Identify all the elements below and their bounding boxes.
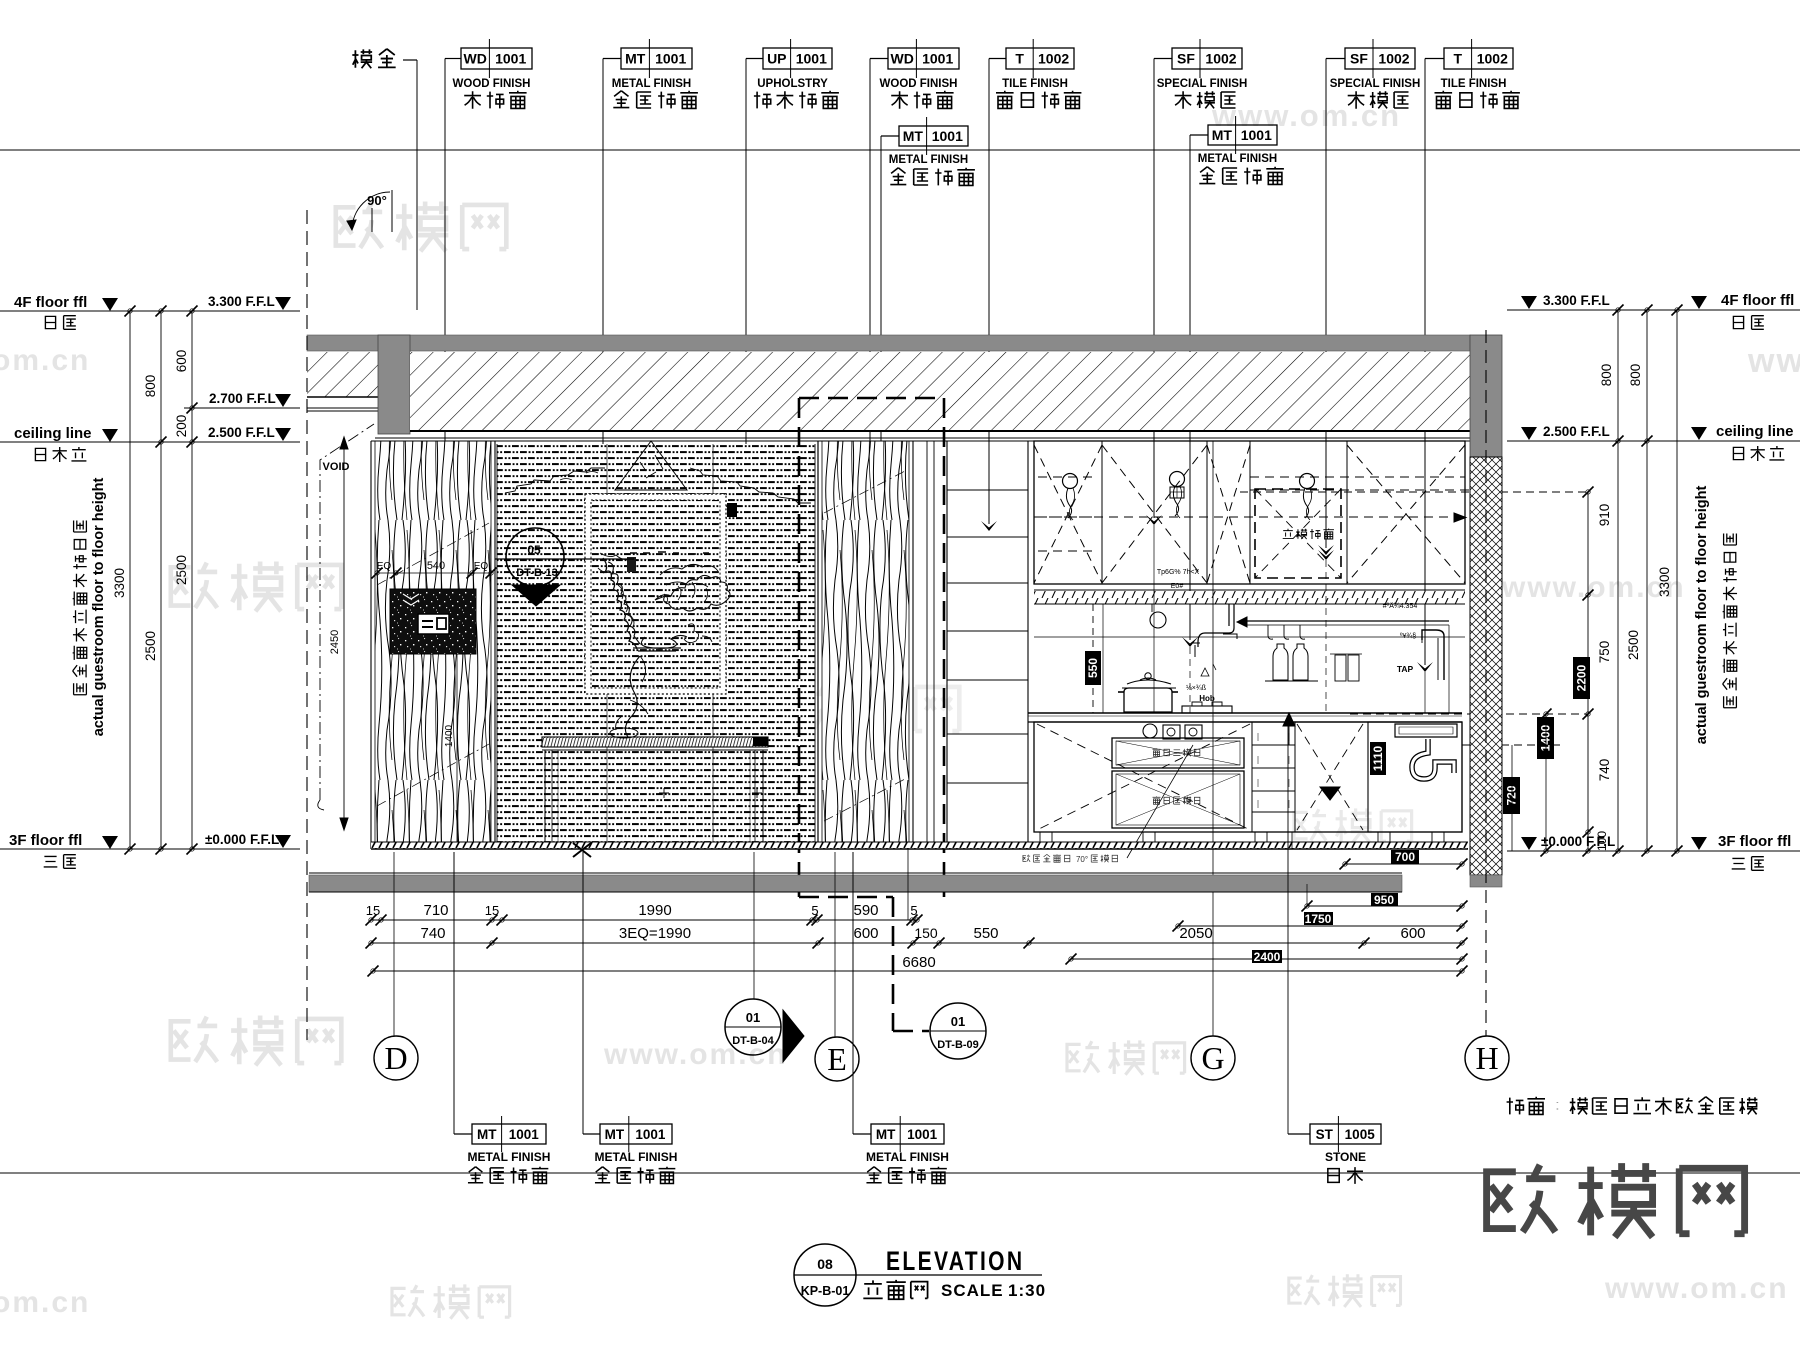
svg-text:1001: 1001 <box>907 1127 938 1142</box>
svg-text:3.300 F.F.L: 3.300 F.F.L <box>1543 293 1610 308</box>
svg-text:5: 5 <box>811 903 818 918</box>
svg-text:WD: WD <box>891 51 914 67</box>
svg-text:740: 740 <box>420 925 445 942</box>
svg-text:600: 600 <box>853 925 878 942</box>
svg-text:#ºÄ¾4.354: #ºÄ¾4.354 <box>1383 602 1418 610</box>
detail marker DT-B-09 <box>930 1003 986 1059</box>
note: cabinets to be deepened by specialist company <box>1507 1097 1758 1115</box>
top finish tags row <box>461 48 532 69</box>
svg-text:www.om.cn: www.om.cn <box>1604 1272 1789 1305</box>
title block: 08/KP-B-01 ELEVATION SCALE 1:30 <box>794 1244 856 1306</box>
svg-text:6680: 6680 <box>902 954 935 971</box>
svg-text:WD: WD <box>464 51 487 67</box>
svg-text:3300: 3300 <box>1657 567 1672 597</box>
svg-text:100: 100 <box>1595 831 1609 851</box>
svg-text:VOID: VOID <box>323 461 350 473</box>
svg-text:2050: 2050 <box>1179 925 1212 942</box>
svg-text:G: G <box>1201 1040 1224 1076</box>
svg-text:¼×¾ß: ¼×¾ß <box>1186 685 1206 692</box>
svg-text:MT: MT <box>903 128 924 144</box>
kitchen base cabinets <box>1034 722 1462 832</box>
cross-hatched column <box>1470 457 1502 875</box>
svg-text:540: 540 <box>427 560 445 572</box>
svg-text:MT: MT <box>1212 127 1233 143</box>
svg-text:3F floor ffl: 3F floor ffl <box>1718 833 1791 850</box>
svg-text:TAP: TAP <box>1397 664 1414 674</box>
floor hatch strip and base slab band <box>371 842 1468 849</box>
console table <box>542 737 768 747</box>
border line top <box>0 149 1800 151</box>
svg-text:3.300 F.F.L: 3.300 F.F.L <box>208 294 275 309</box>
svg-text:800: 800 <box>1599 364 1614 387</box>
svg-text:1001: 1001 <box>635 1127 666 1142</box>
svg-text:ceiling line: ceiling line <box>1716 423 1794 440</box>
svg-text:4F floor ffl: 4F floor ffl <box>14 294 87 311</box>
hob <box>1182 706 1232 713</box>
svg-text:08: 08 <box>817 1256 833 1272</box>
ceiling slab gray band <box>307 335 1470 351</box>
svg-text:SCALE: SCALE <box>941 1281 1004 1300</box>
cooking pot on hob <box>1124 688 1172 712</box>
svg-text:3300: 3300 <box>112 568 127 598</box>
svg-text:1001: 1001 <box>922 51 953 67</box>
svg-text:METAL FINISH: METAL FINISH <box>468 1150 551 1164</box>
svg-text:T: T <box>1015 51 1024 67</box>
kitchen wall cabinets <box>1034 441 1465 584</box>
svg-text:om.cn: om.cn <box>0 344 90 377</box>
svg-text:ST: ST <box>1316 1127 1334 1142</box>
pull-down faucet <box>1198 604 1234 647</box>
artwork frame with branch painting <box>585 494 726 694</box>
svg-text:METAL FINISH: METAL FINISH <box>1198 153 1277 165</box>
svg-text:TILE FINISH: TILE FINISH <box>1441 78 1507 90</box>
svg-text:1:30: 1:30 <box>1008 1281 1046 1300</box>
svg-text:710: 710 <box>423 902 448 919</box>
gray bulkhead block left <box>378 335 410 434</box>
svg-text:º¥¾§: º¥¾§ <box>1400 633 1416 640</box>
svg-text:STONE: STONE <box>1325 1150 1366 1164</box>
svg-text:ceiling line: ceiling line <box>14 425 92 442</box>
svg-text:90°: 90° <box>367 193 387 208</box>
svg-text:01: 01 <box>951 1014 965 1029</box>
svg-text:TILE FINISH: TILE FINISH <box>1002 78 1068 90</box>
svg-text:actual guestroom floor to floo: actual guestroom floor to floor height <box>91 478 107 737</box>
left level annotations: 4F floor / ceiling line / 3F floor <box>0 310 300 312</box>
svg-text:MT: MT <box>477 1127 497 1142</box>
svg-text:1002: 1002 <box>1205 51 1236 67</box>
svg-text:550: 550 <box>973 925 998 942</box>
svg-text:1001: 1001 <box>655 51 686 67</box>
svg-text:2500: 2500 <box>1626 630 1641 660</box>
svg-text:1001: 1001 <box>509 1127 540 1142</box>
svg-text:WOOD FINISH: WOOD FINISH <box>880 78 958 90</box>
svg-text:SPECIAL FINISH: SPECIAL FINISH <box>1157 78 1248 90</box>
svg-text:Tp6G% 7h<X: Tp6G% 7h<X <box>1157 569 1200 576</box>
detail marker DT-B-13 <box>506 528 564 586</box>
svg-text:METAL FINISH: METAL FINISH <box>889 154 968 166</box>
svg-text:ELEVATION: ELEVATION <box>886 1247 1024 1277</box>
svg-text:550: 550 <box>1086 658 1100 678</box>
svg-text:800: 800 <box>143 375 158 398</box>
svg-text:4F floor ffl: 4F floor ffl <box>1721 292 1794 309</box>
svg-text:1001: 1001 <box>1241 127 1272 143</box>
svg-text:1005: 1005 <box>1345 1127 1376 1142</box>
svg-text:KP-B-01: KP-B-01 <box>801 1284 850 1298</box>
tiled feature wall <box>497 444 815 849</box>
sink with P-trap <box>1368 722 1462 832</box>
kitchen elevation: wall cabinets, backsplash, counter, base cabinets, sink <box>947 489 1028 491</box>
svg-text:950: 950 <box>1374 893 1394 907</box>
svg-text:1002: 1002 <box>1378 51 1409 67</box>
svg-text:2500: 2500 <box>174 555 189 585</box>
svg-text:actual guestroom floor to floo: actual guestroom floor to floor height <box>1694 486 1710 745</box>
svg-text:±0.000 F.F.L: ±0.000 F.F.L <box>205 832 279 847</box>
svg-text:590: 590 <box>853 902 878 919</box>
svg-text:2450: 2450 <box>329 630 341 654</box>
svg-text:1750: 1750 <box>1305 912 1332 926</box>
svg-text:1001: 1001 <box>495 51 526 67</box>
magic mirror label and 90 degree swing symbol <box>352 49 395 68</box>
svg-text:EQ: EQ <box>474 561 489 572</box>
svg-text:E0#: E0# <box>1171 583 1184 590</box>
TV screen <box>390 589 476 654</box>
svg-text:2.700 F.F.L: 2.700 F.F.L <box>209 391 276 406</box>
svg-text:MT: MT <box>625 51 646 67</box>
svg-text:1400: 1400 <box>444 724 455 747</box>
svg-text:T: T <box>1454 51 1463 67</box>
svg-text:740: 740 <box>1597 759 1612 782</box>
bottom finish tags <box>472 1124 546 1144</box>
svg-text:DT-B-04: DT-B-04 <box>732 1035 774 1047</box>
svg-text:600: 600 <box>1400 925 1425 942</box>
right level annotations <box>1507 309 1800 311</box>
svg-text:1001: 1001 <box>932 128 963 144</box>
svg-text:WOOD FINISH: WOOD FINISH <box>453 78 531 90</box>
wood grain panel left <box>375 441 491 849</box>
svg-text:5: 5 <box>910 903 917 918</box>
svg-text:1110: 1110 <box>1371 745 1385 771</box>
svg-text:MT: MT <box>876 1127 896 1142</box>
svg-text:SPECIAL FINISH: SPECIAL FINISH <box>1330 78 1421 90</box>
svg-text:150: 150 <box>914 925 938 941</box>
svg-text:1002: 1002 <box>1038 51 1069 67</box>
svg-text:UPHOLSTRY: UPHOLSTRY <box>757 78 828 90</box>
svg-text:om.cn: om.cn <box>0 1286 90 1319</box>
svg-text:H: H <box>1475 1040 1498 1076</box>
svg-text:15: 15 <box>485 903 499 918</box>
svg-text:Hob: Hob <box>1199 694 1215 703</box>
detail marker DT-B-04 <box>783 1010 804 1062</box>
svg-text:05: 05 <box>527 543 541 557</box>
svg-text:www.om.cn: www.om.cn <box>1747 342 1800 380</box>
svg-text:750: 750 <box>1597 641 1612 664</box>
svg-text:600: 600 <box>174 350 189 373</box>
grid bubbles D E G H <box>374 1036 418 1080</box>
svg-text:MT: MT <box>605 1127 625 1142</box>
svg-text:DT-B-13: DT-B-13 <box>516 567 558 579</box>
svg-text:E: E <box>827 1041 847 1077</box>
svg-text:SF: SF <box>1177 51 1195 67</box>
svg-text:DT-B-09: DT-B-09 <box>937 1039 979 1051</box>
svg-text:D: D <box>384 1040 407 1076</box>
svg-text:1990: 1990 <box>638 902 671 919</box>
wood grain panel right <box>822 441 909 849</box>
svg-text:SF: SF <box>1350 51 1368 67</box>
svg-text:EQ: EQ <box>377 561 392 572</box>
svg-text:UP: UP <box>767 51 786 67</box>
svg-text:700: 700 <box>1395 850 1415 864</box>
bottom dimension chains <box>371 919 917 921</box>
svg-text:70°: 70° <box>1076 855 1088 864</box>
big gray watermark bottom right <box>1487 1163 1745 1237</box>
svg-text:1002: 1002 <box>1477 51 1508 67</box>
svg-text:METAL FINISH: METAL FINISH <box>612 78 691 90</box>
svg-text:01: 01 <box>746 1010 760 1025</box>
svg-text:910: 910 <box>1597 504 1612 527</box>
svg-text:200: 200 <box>174 415 189 438</box>
thick dashed detail boundary box <box>799 397 944 400</box>
svg-text:3EQ=1990: 3EQ=1990 <box>619 925 691 942</box>
gray wall block right <box>1470 335 1502 457</box>
svg-text:800: 800 <box>1628 364 1643 387</box>
svg-text:METAL FINISH: METAL FINISH <box>595 1150 678 1164</box>
svg-text:15: 15 <box>366 903 380 918</box>
svg-text:2400: 2400 <box>1254 950 1281 964</box>
svg-text:2200: 2200 <box>1575 664 1589 691</box>
svg-text:2500: 2500 <box>143 631 158 661</box>
svg-text:METAL FINISH: METAL FINISH <box>866 1150 949 1164</box>
svg-text:3F floor ffl: 3F floor ffl <box>9 832 82 849</box>
svg-text:2.500 F.F.L: 2.500 F.F.L <box>1543 424 1610 439</box>
svg-text:2.500 F.F.L: 2.500 F.F.L <box>208 425 275 440</box>
svg-text:1001: 1001 <box>796 51 827 67</box>
